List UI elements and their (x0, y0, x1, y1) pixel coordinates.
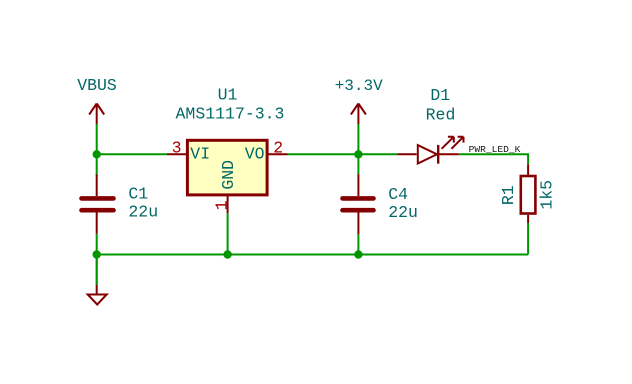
wire: VBUS col below C1 to bottom rail (96, 234, 98, 285)
svg-text:22u: 22u (388, 203, 418, 222)
capacitor C1 (82, 175, 114, 234)
triangle (418, 145, 437, 163)
wire: LED cathode to R1 corner (459, 154, 528, 164)
LED arrow 1 (442, 137, 454, 149)
ground symbol (88, 285, 107, 305)
wire: C4 bottom to rail (357, 234, 359, 254)
svg-text:U1: U1 (218, 86, 238, 105)
svg-text:GND: GND (219, 160, 238, 190)
wire: R1 bottom to rail (527, 223, 529, 255)
svg-text:22u: 22u (128, 203, 158, 222)
svg-text:AMS1117-3.3: AMS1117-3.3 (176, 105, 285, 124)
wire: +3.3V column (357, 124, 359, 174)
pin 2 stub (VO) (269, 153, 288, 155)
wire: top rail VBUS junction to U1 pin3 (97, 153, 167, 155)
svg-text:C1: C1 (128, 185, 148, 204)
junction at VBUS/top (93, 150, 101, 158)
resistor R1 (521, 164, 536, 223)
LED arrow 2 (451, 137, 463, 149)
diode D1 (LED) (397, 137, 463, 164)
power symbol VBUS arrow (89, 104, 104, 125)
cathode lead (438, 153, 459, 155)
pin 3 stub (VI) (167, 153, 186, 155)
svg-text:PWR_LED_K: PWR_LED_K (469, 144, 521, 155)
wire: U1 GND to rail (227, 213, 229, 254)
svg-text:1k5: 1k5 (537, 180, 556, 210)
power symbol +3.3V arrow (351, 104, 366, 125)
pin 1 stub (GND) (227, 196, 229, 213)
junction at +3.3V/top (354, 150, 362, 158)
svg-text:1: 1 (213, 200, 232, 210)
wire: ground stub (96, 255, 98, 285)
anode lead (397, 153, 416, 155)
wire: bottom rail (97, 254, 528, 256)
svg-text:VO: VO (245, 144, 265, 163)
svg-text:C4: C4 (388, 185, 408, 204)
svg-text:Red: Red (426, 106, 456, 125)
svg-text:R1: R1 (499, 185, 518, 205)
wire: VBUS column (96, 124, 98, 176)
op-amp U1 body (187, 140, 267, 195)
junction bottom U1 GND (223, 250, 231, 258)
svg-text:VI: VI (190, 144, 210, 163)
svg-text:D1: D1 (430, 86, 450, 105)
junction bottom C4 (354, 250, 362, 258)
svg-text:+3.3V: +3.3V (335, 77, 383, 95)
svg-text:3: 3 (172, 138, 182, 157)
wire: U1 pin2 to LED anode (288, 153, 398, 155)
svg-text:VBUS: VBUS (77, 76, 117, 95)
svg-text:2: 2 (273, 138, 283, 157)
junction bottom-left (93, 250, 101, 258)
capacitor C4 (343, 174, 374, 234)
cathode bar (437, 145, 439, 164)
